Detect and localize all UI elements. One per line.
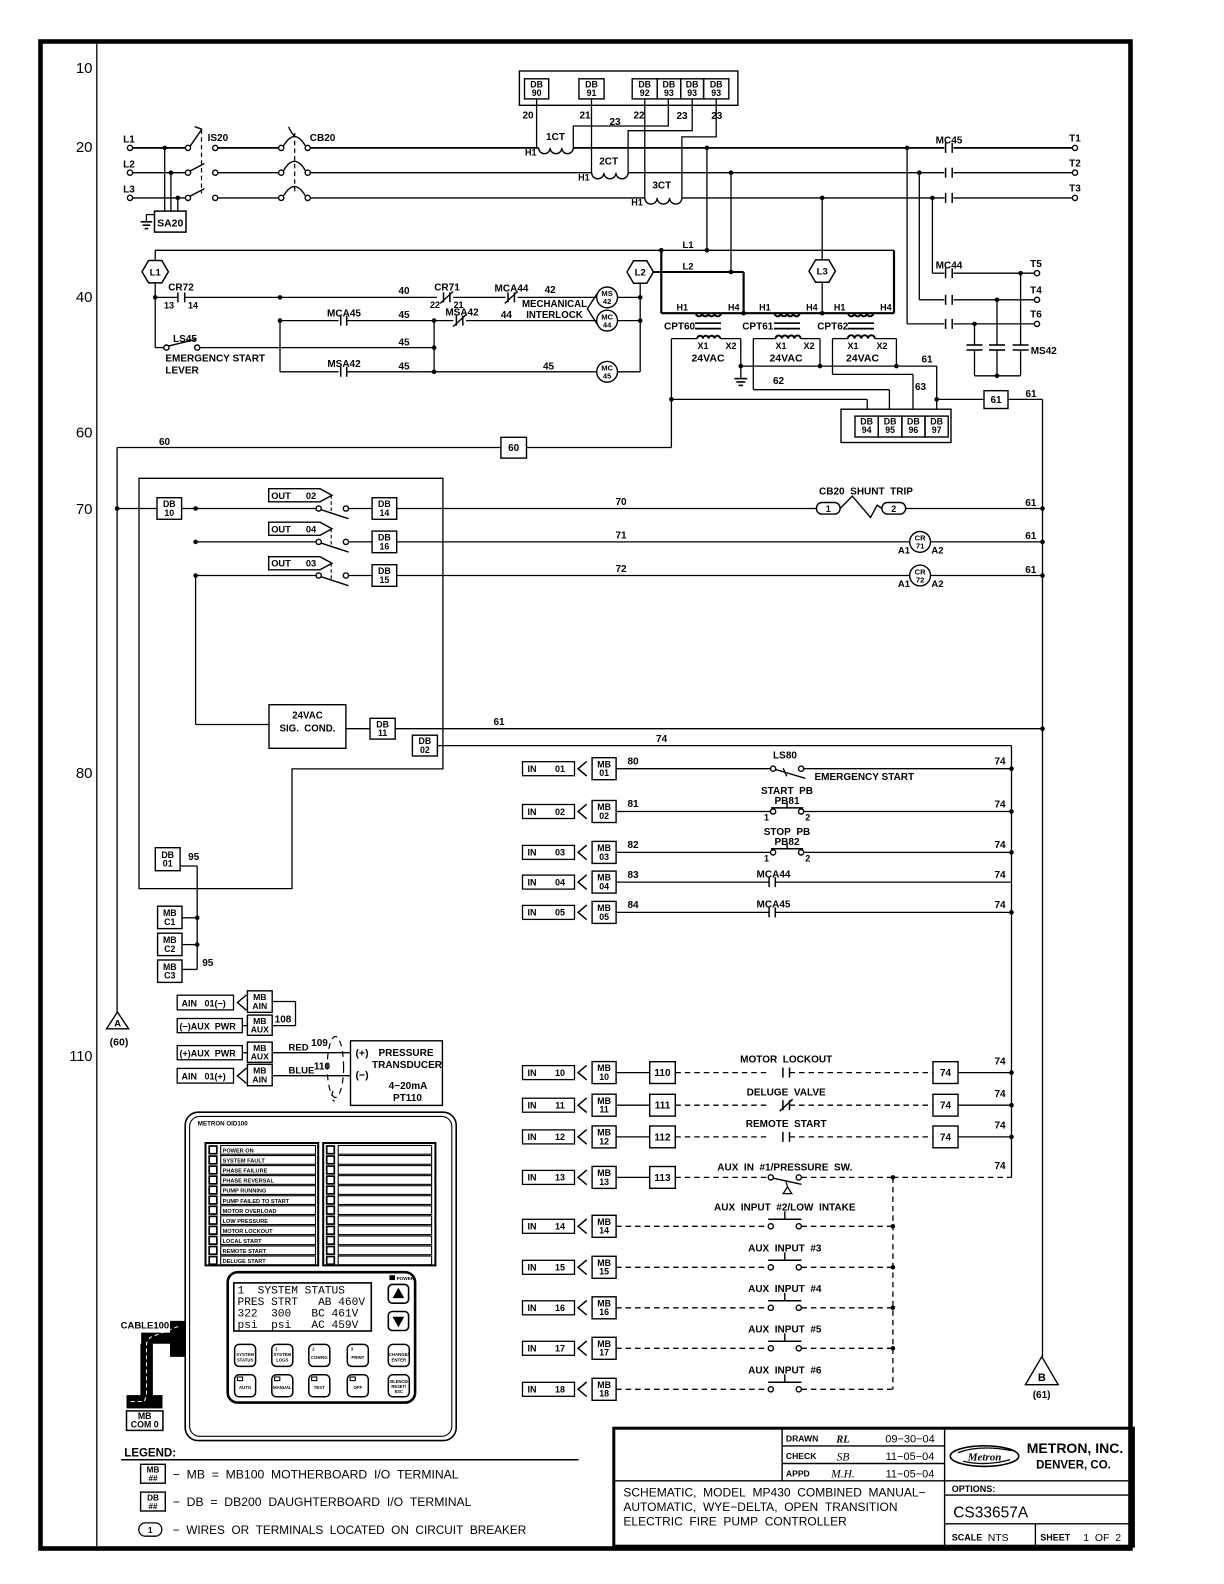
- svg-text:LS80: LS80: [773, 750, 797, 761]
- svg-text:18: 18: [555, 1385, 565, 1395]
- svg-text:(−): (−): [355, 1069, 368, 1081]
- svg-text:BLUE: BLUE: [289, 1065, 315, 1076]
- svg-text:22: 22: [430, 300, 440, 310]
- current transformer 1CT: [539, 148, 574, 154]
- wire L2 drop: [730, 173, 732, 272]
- input flag AIN 01(+): [177, 1068, 233, 1083]
- terminal MB AUX (2): [242, 1052, 247, 1054]
- wire L1 drop to control bus: [706, 148, 708, 250]
- svg-text:SHEET: SHEET: [1040, 1533, 1071, 1543]
- svg-text:X2: X2: [725, 341, 736, 351]
- svg-text:T2: T2: [1069, 158, 1081, 169]
- svg-text:AUX INPUT #2/LOW INTAKE: AUX INPUT #2/LOW INTAKE: [714, 1202, 856, 1213]
- svg-text:11−05−04: 11−05−04: [886, 1468, 935, 1480]
- junction dots capacitor drops: [1018, 271, 1023, 276]
- svg-text:MCA45: MCA45: [757, 900, 791, 911]
- svg-text:DRAWN: DRAWN: [786, 1434, 818, 1444]
- svg-text:AUX INPUT #4: AUX INPUT #4: [748, 1284, 822, 1295]
- svg-text:A1: A1: [898, 579, 911, 590]
- svg-text:18: 18: [599, 1389, 609, 1399]
- svg-text:2: 2: [805, 812, 810, 822]
- svg-text:OFF: OFF: [354, 1385, 363, 1390]
- svg-text:24VAC: 24VAC: [846, 353, 879, 365]
- svg-text:T3: T3: [1069, 184, 1081, 195]
- svg-text:111: 111: [655, 1101, 671, 1112]
- wire number box 113: [650, 1167, 676, 1189]
- svg-text:CS33657A: CS33657A: [953, 1504, 1029, 1521]
- svg-text:322 300 BC 461V: 322 300 BC 461V: [238, 1308, 359, 1320]
- terminal DB16: [349, 541, 373, 543]
- wire rung IN11 to 74 bus: [958, 1104, 1012, 1106]
- input flag IN 05: [523, 905, 575, 919]
- button up arrow: [388, 1284, 408, 1303]
- wire rung 45a left: [280, 320, 339, 322]
- wire dashed rung IN16 left: [616, 1307, 768, 1309]
- output flag OUT 04: [269, 522, 332, 535]
- svg-text:STATUS: STATUS: [237, 1357, 254, 1362]
- contact DELUGE VALVE (NC): [782, 1100, 784, 1110]
- wire rung IN05 right: [775, 911, 1011, 913]
- svg-text:C1: C1: [164, 917, 175, 927]
- wire 95 chain: [180, 865, 197, 867]
- wire 82: [616, 851, 770, 853]
- wire number box 60: [501, 437, 527, 458]
- svg-text:DENVER, CO.: DENVER, CO.: [1036, 1459, 1111, 1471]
- svg-text:MS42: MS42: [1031, 346, 1058, 357]
- terminal DB96: [902, 416, 925, 437]
- svg-text:ESC: ESC: [395, 1389, 403, 1394]
- wire dashed rung IN11 left: [675, 1104, 769, 1106]
- svg-text:METRON, INC.: METRON, INC.: [1027, 1440, 1123, 1456]
- svg-text:LOW PRESSURE: LOW PRESSURE: [223, 1219, 269, 1225]
- contact CR71 22-21 (NC): [443, 292, 445, 302]
- svg-text:METRON OID100: METRON OID100: [198, 1120, 248, 1127]
- wire rung 70 left: [182, 508, 317, 510]
- svg-text:(60): (60): [110, 1037, 129, 1049]
- wire X2 common bus: [741, 365, 937, 367]
- svg-text:15: 15: [380, 575, 390, 585]
- svg-text:12: 12: [555, 1132, 565, 1142]
- svg-text:10: 10: [555, 1068, 565, 1078]
- svg-text:01(+): 01(+): [205, 1072, 226, 1082]
- svg-text:C3: C3: [164, 971, 175, 981]
- svg-text:16: 16: [555, 1303, 565, 1313]
- svg-text:X1: X1: [697, 341, 708, 351]
- svg-text:MOTOR LOCKOUT: MOTOR LOCKOUT: [740, 1055, 832, 1066]
- svg-text:OUT: OUT: [271, 491, 291, 501]
- capacitor MS42 bank: [1020, 273, 1022, 345]
- svg-text:MOTOR LOCKOUT: MOTOR LOCKOUT: [223, 1229, 274, 1235]
- svg-text:95: 95: [188, 852, 200, 863]
- svg-text:MSA42: MSA42: [445, 308, 479, 319]
- wire 110 BLUE: [272, 1075, 350, 1077]
- svg-text:61: 61: [1025, 498, 1037, 509]
- svg-text:3CT: 3CT: [652, 181, 671, 192]
- svg-text:IN: IN: [528, 1132, 537, 1142]
- junction dot CPT60 feed: [659, 248, 664, 253]
- wire 83: [616, 881, 769, 883]
- svg-text:04: 04: [555, 877, 565, 887]
- wire 61 to bus: [1008, 398, 1043, 400]
- svg-text:ENTER: ENTER: [392, 1357, 407, 1362]
- junction dot L1 drop joins bus: [705, 248, 710, 253]
- svg-text:− WIRES OR TERMINALS LOCAT: − WIRES OR TERMINALS LOCATED ON CIRCUIT …: [173, 1523, 526, 1537]
- wire rung 72 left: [196, 575, 317, 577]
- switch OUT02: [316, 506, 321, 511]
- svg-text:H4: H4: [728, 303, 740, 313]
- wire dashed rung IN14 right: [801, 1225, 893, 1227]
- wire to box 113: [616, 1176, 650, 1178]
- svg-text:L3: L3: [123, 185, 135, 196]
- svg-text:110: 110: [314, 1061, 331, 1072]
- svg-text:112: 112: [654, 1132, 671, 1143]
- svg-text:AUX: AUX: [251, 1052, 269, 1062]
- svg-text:RL: RL: [835, 1435, 849, 1446]
- input flag IN 16: [523, 1301, 575, 1315]
- CPT61 core: [774, 322, 800, 324]
- wire number box 111: [650, 1094, 676, 1116]
- wire rung IN12 to 74 bus: [958, 1136, 1012, 1138]
- wire L2 control: [653, 271, 743, 273]
- svg-text:04: 04: [306, 524, 317, 534]
- LED annunciator right bank: [323, 1143, 435, 1265]
- wire CPT primary bus: [661, 312, 894, 314]
- terminal DB93 (c): [704, 79, 729, 99]
- terminal DB02: [412, 735, 437, 756]
- svg-text:108: 108: [275, 1014, 292, 1025]
- svg-text:L1: L1: [682, 240, 694, 251]
- input flag IN 15: [523, 1260, 575, 1274]
- svg-text:T6: T6: [1030, 310, 1042, 321]
- input flag IN 01: [523, 762, 575, 776]
- svg-text:14: 14: [380, 508, 390, 518]
- svg-text:45: 45: [398, 361, 410, 372]
- svg-text:61: 61: [493, 717, 505, 728]
- wire 71 to 61 bus: [931, 541, 1043, 543]
- svg-text:01: 01: [555, 764, 565, 774]
- wire L1 power line: [133, 147, 186, 149]
- aux switch AUX INPUT #6: [768, 1387, 773, 1392]
- terminal MB AIN (2): [247, 1064, 272, 1086]
- svg-text:11: 11: [599, 1105, 608, 1115]
- terminal DB01: [155, 848, 180, 871]
- svg-text:74: 74: [940, 1132, 952, 1143]
- svg-text:82: 82: [627, 840, 639, 851]
- svg-text:ELECTRIC FIRE PUMP CONTROLL: ELECTRIC FIRE PUMP CONTROLLER: [623, 1515, 847, 1529]
- wire T1 branch down: [906, 148, 908, 324]
- svg-text:(−)AUX PWR: (−)AUX PWR: [180, 1022, 237, 1032]
- svg-text:01: 01: [599, 768, 609, 778]
- wire CPT61 X2: [801, 338, 820, 340]
- wire CPT62 X2: [875, 338, 897, 340]
- terminal DB94: [855, 416, 878, 437]
- svg-text:72: 72: [916, 575, 924, 584]
- wire number box 74 (IN10): [933, 1062, 958, 1084]
- aux switch AUX INPUT #5: [768, 1346, 773, 1351]
- svg-text:05: 05: [555, 908, 565, 918]
- wire rung IN01 right: [804, 768, 1012, 770]
- coil MC45: [597, 361, 618, 382]
- svg-text:14: 14: [599, 1226, 609, 1236]
- contact MCA44 (NC): [507, 292, 509, 302]
- svg-text:45: 45: [398, 337, 410, 348]
- svg-text:83: 83: [627, 870, 639, 881]
- svg-text:AIN: AIN: [252, 1074, 267, 1084]
- svg-text:L2: L2: [682, 262, 693, 273]
- svg-text:17: 17: [555, 1344, 565, 1354]
- svg-text:2: 2: [891, 504, 896, 514]
- terminal T1: [1072, 145, 1077, 150]
- coil MS42: [597, 287, 618, 308]
- svg-text:02: 02: [306, 491, 316, 501]
- svg-text:AUTO: AUTO: [239, 1385, 252, 1390]
- wire 42 segment: [453, 296, 505, 298]
- wire 71: [397, 541, 910, 543]
- title block frame: [614, 1428, 1134, 1546]
- svg-text:71: 71: [916, 542, 925, 551]
- svg-text:SCHEMATIC, MODEL MP430 COMB: SCHEMATIC, MODEL MP430 COMBINED MANUAL−: [623, 1486, 925, 1500]
- svg-text:SA20: SA20: [157, 218, 183, 230]
- wire 62 (CPT61 X1 to DB95): [753, 338, 775, 340]
- limit switch LS80: [771, 766, 776, 771]
- contact MSA42 (NO): [340, 367, 342, 377]
- current transformer 2CT: [592, 173, 628, 179]
- svg-text:45: 45: [603, 372, 612, 381]
- wire L3 power line: [133, 197, 186, 199]
- svg-text:− DB = DB200 DAUGHTERBOARD: − DB = DB200 DAUGHTERBOARD I/O TERMINAL: [173, 1495, 472, 1509]
- keypad area outline: [228, 1272, 415, 1402]
- pushbutton PB81 (START PB): [771, 809, 776, 814]
- switch OUT04: [316, 539, 321, 544]
- svg-text:C2: C2: [164, 944, 175, 954]
- legend DB terminal symbol: [141, 1492, 166, 1511]
- CPT62 core: [848, 322, 874, 324]
- svg-text:X1: X1: [775, 341, 786, 351]
- svg-text:01: 01: [163, 859, 173, 869]
- terminal T5: [1034, 271, 1039, 276]
- svg-text:11: 11: [555, 1101, 565, 1111]
- svg-text:90: 90: [532, 88, 542, 98]
- svg-text:IN: IN: [528, 1068, 537, 1078]
- transformer CPT60 secondary: [697, 336, 720, 339]
- terminal MB17: [592, 1337, 616, 1359]
- wire 60 (CPT60 X1): [671, 338, 697, 340]
- terminal MB AIN (1): [247, 991, 272, 1013]
- svg-text:84: 84: [627, 900, 639, 911]
- input flag IN 04: [523, 875, 575, 889]
- svg-text:AIN: AIN: [252, 1001, 267, 1011]
- wire to box 110: [616, 1072, 650, 1074]
- wire 81: [616, 811, 770, 813]
- svg-text:MCA44: MCA44: [757, 869, 791, 880]
- svg-text:04: 04: [599, 882, 609, 892]
- terminal DB93 (b): [681, 79, 704, 99]
- terminal MB COM 0: [127, 1411, 163, 1431]
- terminal MB AUX (1): [242, 1025, 247, 1027]
- power LED: [390, 1276, 395, 1280]
- relay coil CR72: [910, 565, 931, 586]
- terminal MB13: [592, 1166, 616, 1188]
- pressure switch AUX IN #1: [768, 1175, 773, 1180]
- wire 22 (DB92 to 3CT): [644, 99, 646, 198]
- node L3 terminal: [127, 195, 132, 200]
- svg-text:24VAC: 24VAC: [292, 711, 323, 722]
- svg-text:93: 93: [687, 88, 697, 98]
- svg-text:(61): (61): [1033, 1390, 1051, 1401]
- svg-text:IN: IN: [528, 764, 537, 774]
- terminal MB03: [592, 841, 616, 863]
- svg-text:OUT: OUT: [271, 524, 291, 534]
- svg-text:2CT: 2CT: [599, 157, 618, 168]
- svg-text:CABLE100: CABLE100: [121, 1321, 170, 1332]
- contact CR72 13-14: [155, 296, 177, 298]
- svg-text:LOCAL START: LOCAL START: [223, 1239, 263, 1245]
- LED rows right bank: [327, 1146, 335, 1154]
- contact MC45 (3 poles): [945, 143, 947, 153]
- svg-text:SYSTEM FAULT: SYSTEM FAULT: [223, 1159, 266, 1165]
- svg-text:44: 44: [603, 320, 612, 329]
- svg-text:AUX INPUT #6: AUX INPUT #6: [748, 1365, 822, 1376]
- wire MC44 to L2 leg: [618, 320, 641, 322]
- wire MS42 to L2 leg: [618, 296, 641, 298]
- wire 61 (to 61 box): [937, 398, 984, 400]
- wire T4 line: [919, 299, 944, 301]
- terminal MB C3: [158, 960, 182, 982]
- svg-text:H1: H1: [759, 303, 771, 313]
- wire rung IN10 to 74 bus: [958, 1072, 1012, 1074]
- svg-text:SCALE: SCALE: [952, 1533, 983, 1543]
- svg-text:72: 72: [615, 564, 627, 575]
- svg-text:AIN: AIN: [182, 1072, 198, 1082]
- wire 61 from DB11: [395, 728, 1042, 730]
- wire 23 (1CT to DB93a): [573, 99, 668, 148]
- wire to box 111: [616, 1104, 650, 1106]
- wire 74 from DB02: [437, 745, 1011, 747]
- terminal DB15: [349, 575, 373, 577]
- svg-text:IN: IN: [528, 1344, 537, 1354]
- svg-text:LEVER: LEVER: [165, 366, 199, 377]
- input flag IN 03: [523, 845, 575, 859]
- svg-text:61: 61: [1025, 565, 1037, 576]
- svg-text:95: 95: [885, 425, 895, 435]
- svg-text:74: 74: [994, 900, 1006, 911]
- wire number box 110: [650, 1062, 676, 1084]
- svg-text:CPT61: CPT61: [742, 322, 774, 333]
- wire L1 hex down leg: [154, 283, 156, 348]
- svg-text:CR71: CR71: [434, 283, 460, 294]
- svg-text:11−05−04: 11−05−04: [886, 1451, 935, 1463]
- svg-text:CR72: CR72: [168, 283, 194, 294]
- svg-text:B: B: [1038, 1372, 1046, 1384]
- breaker terminal 1 (CB20 shunt trip): [816, 503, 840, 515]
- wire T3 branch down: [931, 198, 933, 273]
- terminal block DB94-DB97 outline: [841, 409, 951, 442]
- svg-text:SB: SB: [837, 1452, 850, 1464]
- svg-text:1CT: 1CT: [546, 132, 565, 143]
- terminal DB11: [346, 728, 370, 730]
- junction dot L1 drop: [705, 146, 710, 151]
- junction dot T1 branch: [905, 146, 910, 151]
- svg-text:EMERGENCY START: EMERGENCY START: [815, 772, 915, 783]
- terminal T2: [1072, 170, 1077, 175]
- transformer CPT62 secondary: [848, 335, 875, 338]
- svg-text:PHASE FAILURE: PHASE FAILURE: [223, 1169, 268, 1175]
- svg-text:13: 13: [164, 301, 174, 311]
- terminal DB10: [117, 508, 157, 510]
- svg-text:PB81: PB81: [774, 796, 799, 807]
- svg-text:16: 16: [599, 1307, 609, 1317]
- daughterboard enclosure outline: [139, 478, 443, 888]
- svg-text:96: 96: [909, 425, 919, 435]
- svg-text:23: 23: [711, 111, 723, 122]
- input flag IN 18: [523, 1382, 575, 1396]
- terminal DB93 (a): [657, 79, 681, 99]
- terminal MB10: [592, 1062, 616, 1084]
- junction dot T3 branch: [930, 196, 935, 201]
- svg-text:PRINT: PRINT: [351, 1355, 364, 1360]
- wires to SA20: [164, 148, 166, 211]
- svg-text:12: 12: [599, 1136, 609, 1146]
- svg-text:MSA42: MSA42: [327, 359, 361, 370]
- svg-text:SIG. COND.: SIG. COND.: [280, 724, 336, 735]
- svg-text:63: 63: [915, 382, 927, 393]
- svg-text:10: 10: [76, 60, 93, 77]
- wire rung IN02 right: [804, 811, 1012, 813]
- transformer CPT61 secondary: [776, 335, 801, 338]
- terminal block DB90-DB93 outline: [519, 71, 738, 105]
- svg-text:A2: A2: [931, 546, 943, 557]
- contact MCA45 (input): [768, 907, 770, 917]
- svg-text:H4: H4: [880, 303, 892, 313]
- svg-text:PUMP FAILED TO START: PUMP FAILED TO START: [223, 1199, 290, 1205]
- wire L2 hex down leg: [639, 283, 641, 372]
- svg-text:MECHANICAL: MECHANICAL: [522, 299, 587, 310]
- svg-text:02: 02: [599, 811, 609, 821]
- svg-text:IN: IN: [528, 848, 537, 858]
- contact MCA45: [340, 316, 342, 326]
- svg-text:45: 45: [543, 361, 555, 372]
- svg-text:RED: RED: [289, 1042, 309, 1053]
- svg-text:L2: L2: [123, 159, 135, 170]
- svg-text:1 OF 2: 1 OF 2: [1083, 1532, 1121, 1544]
- circuit breaker CB20: [279, 145, 284, 150]
- svg-text:TEST: TEST: [314, 1385, 325, 1390]
- svg-text:H1: H1: [676, 303, 688, 313]
- svg-text:71: 71: [615, 531, 627, 542]
- svg-text:21: 21: [579, 111, 591, 122]
- svg-text:93: 93: [711, 88, 721, 98]
- svg-text:97: 97: [932, 425, 942, 435]
- svg-text:H4: H4: [806, 303, 818, 313]
- transformer CPT61 primary: [775, 313, 800, 316]
- svg-text:109: 109: [311, 1038, 328, 1049]
- svg-text:Metron: Metron: [967, 1451, 1002, 1463]
- svg-text:AUX IN #1/PRESSURE SW.: AUX IN #1/PRESSURE SW.: [717, 1162, 852, 1173]
- cable shield symbol: [327, 1037, 343, 1098]
- junction dot T2 branch: [917, 170, 922, 175]
- svg-text:10: 10: [164, 508, 174, 518]
- svg-text:REMOTE START: REMOTE START: [746, 1119, 827, 1130]
- svg-text:24VAC: 24VAC: [769, 353, 802, 365]
- svg-text:02: 02: [420, 745, 430, 755]
- wire 60 branch to DB94: [671, 398, 867, 400]
- contact MSA42 (NC): [455, 316, 457, 326]
- svg-text:40: 40: [76, 289, 93, 306]
- wire dashed rung IN15 right: [801, 1266, 893, 1268]
- svg-text:61: 61: [1025, 531, 1037, 542]
- svg-text:17: 17: [599, 1348, 609, 1358]
- svg-text:POWER ON: POWER ON: [223, 1149, 254, 1155]
